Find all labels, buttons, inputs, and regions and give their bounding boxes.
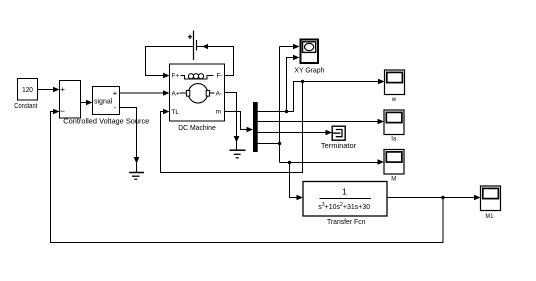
svg-text:120: 120: [22, 85, 33, 94]
svg-text:Ia: Ia: [391, 137, 397, 143]
svg-text:w: w: [391, 97, 397, 103]
svg-text:+: +: [113, 89, 118, 98]
svg-text:Controlled Voltage Source: Controlled Voltage Source: [63, 116, 149, 125]
svg-text:TL: TL: [172, 109, 180, 116]
svg-text:m: m: [216, 109, 221, 116]
svg-text:Constant: Constant: [14, 103, 37, 110]
svg-text:1: 1: [342, 187, 347, 197]
svg-text:M1: M1: [485, 213, 493, 220]
svg-text:F-: F-: [216, 73, 222, 80]
svg-text:Terminator: Terminator: [321, 141, 357, 150]
svg-text:+: +: [60, 84, 65, 94]
svg-text:s3+10s2+31s+30: s3+10s2+31s+30: [318, 202, 370, 211]
svg-text:A-: A-: [216, 91, 222, 98]
svg-text:Transfer Fcn: Transfer Fcn: [327, 217, 366, 226]
svg-text:signal: signal: [94, 99, 113, 106]
svg-text:−: −: [60, 106, 65, 116]
svg-text:A+: A+: [172, 91, 180, 98]
svg-text:XY Graph: XY Graph: [294, 65, 324, 74]
svg-text:DC Machine: DC Machine: [178, 123, 216, 132]
svg-text:F+: F+: [172, 73, 180, 80]
svg-text:M: M: [391, 177, 396, 183]
